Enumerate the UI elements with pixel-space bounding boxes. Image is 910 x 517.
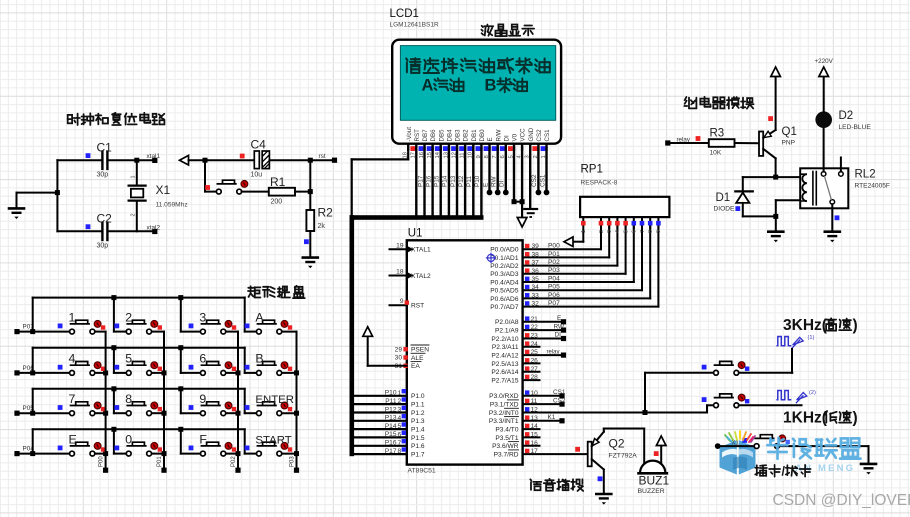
wire row bus [32,389,34,413]
wire button to column [152,372,165,374]
svg-text:CS2: CS2 [536,129,543,142]
power EA [363,327,373,337]
node E [561,319,566,324]
junction [512,199,517,204]
wire column P03 [296,332,298,471]
wire [17,453,70,455]
wire [604,428,644,430]
pin 5 RP1 [625,217,627,228]
lcd pin VCC [521,144,523,150]
svg-text:Q2: Q2 [609,437,625,451]
wire bus drop [180,429,182,453]
svg-text:P3.1/TXD: P3.1/TXD [490,402,519,409]
wire P00 [523,248,601,250]
pin 4 RP1 [616,217,618,228]
svg-text:30p: 30p [97,243,109,250]
svg-text:C1: C1 [97,141,113,155]
svg-text:C2: C2 [97,212,113,226]
wire button to column [152,453,165,455]
svg-text:P14: P14 [442,175,449,187]
pin 7 RP1 [641,217,643,228]
node CS1 [559,393,564,398]
svg-text:2k: 2k [318,223,326,230]
svg-text:START: START [255,434,291,446]
svg-text:P03: P03 [548,267,560,274]
wire button to column [152,412,165,414]
label 语音播报 [530,479,541,490]
svg-text:P3.3/INT1: P3.3/INT1 [489,418,519,425]
svg-text:ENTER: ENTER [255,394,294,406]
svg-text:BUZ1: BUZ1 [639,474,670,488]
watermark logo fan [725,431,755,442]
svg-text:AT89C51: AT89C51 [408,468,436,475]
wire DI [505,148,507,192]
wire row bus [33,297,245,299]
svg-text:P10: P10 [385,390,397,397]
label 插卡/拔卡 [755,465,767,476]
relay RL2 [800,158,848,209]
svg-text:P1.2: P1.2 [411,410,425,417]
junction [236,411,241,416]
pin 2 P1.1 [354,403,407,405]
wire bus drop [113,389,115,413]
svg-text:P02: P02 [548,259,560,266]
label keypad title [248,286,260,297]
svg-text:4: 4 [398,415,402,422]
wire VCC [521,148,523,202]
svg-text:P0.5/AD5: P0.5/AD5 [490,288,519,295]
svg-text:6: 6 [199,352,206,366]
wire P03 [523,273,626,275]
svg-text:P17: P17 [417,175,424,187]
svg-text:3: 3 [398,407,402,414]
wire Q2 collector [603,470,605,494]
svg-text:P13: P13 [385,415,397,422]
push button 7 [58,402,106,416]
wire [514,201,522,203]
svg-text:X1: X1 [156,183,171,197]
wire [367,336,369,366]
wire bus drop [113,298,115,332]
junction [30,329,35,334]
wire GND [529,148,531,209]
svg-text:RESPACK-8: RESPACK-8 [581,180,618,187]
wire [245,412,257,414]
svg-text:DB2: DB2 [463,129,470,142]
svg-text:xtal1: xtal1 [147,153,161,160]
svg-text:R3: R3 [710,128,725,140]
junction [773,175,778,180]
lcd text line1 请选择汽油或柴油 [406,58,420,73]
svg-text:ALE: ALE [411,355,424,362]
node CS2 [559,402,564,407]
svg-text:DI: DI [499,180,506,187]
wire [351,159,353,216]
push button 5 [114,362,162,376]
wire [573,241,584,243]
wire [775,216,777,231]
wire [57,159,100,161]
junction [308,189,313,194]
svg-text:P3.6/WR: P3.6/WR [492,443,519,450]
node K1 button [715,443,721,449]
wire [521,202,523,218]
svg-text:P1.7: P1.7 [411,452,425,459]
svg-text:P3.5/T1: P3.5/T1 [495,435,518,442]
wire DI [523,338,564,340]
ground LCD GND [523,209,538,217]
wire [739,404,802,406]
svg-text:P2.6/A14: P2.6/A14 [491,369,518,376]
svg-text:C4: C4 [251,138,267,152]
buzzer BUZ1 [639,461,667,474]
svg-text:1: 1 [131,175,137,178]
resistor R2 [306,210,314,231]
pin 1 RP1 [582,217,584,242]
svg-text:1: 1 [581,230,587,233]
svg-text:P04: P04 [548,275,560,282]
lcd pin E [488,144,490,150]
node DI [503,190,509,196]
wire stub [523,346,540,348]
svg-text:+220V: +220V [815,58,834,65]
wire [608,226,610,257]
clock source 2 [776,391,806,404]
push button START [245,442,293,456]
svg-text:P1.6: P1.6 [411,443,425,450]
transistor Q2 [588,432,604,470]
wire LCD data [472,148,474,217]
svg-text:CS1: CS1 [553,389,566,396]
pin 2 RP1 [600,217,602,228]
svg-text:K1: K1 [548,414,556,421]
node CS1 [544,190,550,196]
svg-text:rst: rst [319,153,326,160]
wire button to column [226,412,238,414]
wire row bus [33,388,245,390]
svg-text:2: 2 [125,310,132,324]
pin 3 RP1 [608,217,610,228]
node P04 [14,451,19,456]
wire button to column [95,453,106,455]
svg-text:0: 0 [125,432,132,446]
label 液晶显示 [481,25,493,36]
svg-text:RST: RST [414,129,421,142]
wire RW [497,148,499,192]
wire LCD data [440,148,442,217]
wire button to column [282,453,297,455]
svg-text:E: E [482,183,489,187]
ic U1 AT89C51 body [407,240,523,464]
svg-text:5: 5 [623,230,629,233]
wire LCD data [480,148,482,217]
svg-text:P1.0: P1.0 [411,393,425,400]
svg-text:P2.2/A10: P2.2/A10 [491,336,518,343]
junction [103,451,108,456]
wire column P00 [105,332,107,471]
wire LCD data [464,148,466,217]
svg-text:EA: EA [411,363,420,370]
wire [181,331,201,333]
node E [487,190,493,196]
pin 1 P1.0 [354,395,407,397]
wire [641,226,643,290]
wire button to column [95,331,106,333]
node P00 [103,468,108,473]
wire K1 [523,420,562,422]
wire P06 [523,297,651,299]
svg-text:R1: R1 [270,175,286,189]
svg-text:9: 9 [400,298,404,305]
svg-text:3KHz(: 3KHz( [783,317,828,334]
svg-text:BUZZER: BUZZER [638,488,665,495]
svg-text:P0.6/AD6: P0.6/AD6 [490,296,519,303]
junction [308,158,313,163]
wire row bus [33,428,245,430]
junction [162,370,167,375]
node RW [495,190,501,196]
push button 3KHz [702,361,750,375]
svg-text:P1.3: P1.3 [411,418,425,425]
pin 9 RP1 [657,217,659,228]
lcd pin DB2 [464,144,466,150]
wire [245,453,257,455]
lcd LCD1 body [392,40,561,144]
svg-text:9: 9 [199,392,206,406]
svg-text:5: 5 [398,423,402,430]
wire [17,192,58,194]
junction [178,345,183,350]
wire [181,372,201,374]
node RW [561,328,566,333]
svg-text:R2: R2 [318,206,334,220]
svg-text:xtal2: xtal2 [147,224,161,231]
svg-text:RW: RW [554,323,565,330]
wire [204,160,206,191]
svg-text:GND: GND [528,127,535,141]
led D2 [815,111,832,128]
svg-text:P07: P07 [548,300,560,307]
svg-text:P16: P16 [425,175,432,187]
svg-text:DB5: DB5 [438,129,445,142]
svg-text:11.059Mhz: 11.059Mhz [156,202,188,209]
node relay [665,140,670,145]
svg-text:VCC: VCC [520,128,527,142]
junction [520,199,525,204]
svg-text:F: F [199,432,207,446]
wire CS2 [523,403,562,405]
junction [111,295,116,300]
wire [245,331,257,333]
power Q1 [771,67,781,77]
wire INT0 to speed buttons [523,412,707,414]
wire [791,349,793,373]
push button E [58,442,106,456]
wire stub [523,371,540,373]
wire bus drop [113,348,115,373]
svg-text:R/W: R/W [495,129,502,141]
svg-text:-Vout: -Vout [406,127,413,142]
svg-text:FZT792A: FZT792A [609,453,638,460]
svg-text:PSEN: PSEN [411,347,429,354]
wire button to column [152,331,165,333]
svg-text:6: 6 [398,431,402,438]
wire CS2 [537,148,539,192]
node relay [561,353,566,358]
push button A [245,320,293,334]
wire -Vout [407,148,409,159]
svg-text:P10: P10 [474,175,481,187]
wire row bus [33,347,245,349]
junction [294,451,299,456]
svg-text:(2): (2) [809,390,816,396]
wire bus drop [244,348,246,373]
wire bus drop [180,298,182,332]
svg-text:P14: P14 [385,423,397,430]
push button reset [216,180,247,194]
junction [103,370,108,375]
wire button to column [226,453,238,455]
junction [111,386,116,391]
capacitor C4 [254,151,269,169]
lcd pin GND [529,144,531,150]
svg-text:9: 9 [656,230,662,233]
push button 1 [58,320,106,334]
pin 5 P1.4 [354,428,407,430]
junction [103,411,108,416]
svg-text:4: 4 [69,352,76,366]
wire [743,176,800,178]
svg-text:P16: P16 [385,440,397,447]
wire [242,191,269,193]
wire [643,429,645,465]
svg-text:P1.1: P1.1 [411,402,425,409]
svg-text:30: 30 [395,355,403,362]
wire E [488,148,490,192]
lcd pin DI [505,144,507,150]
wire [775,200,777,216]
svg-text:relay: relay [547,349,560,355]
junction [162,451,167,456]
wire [625,226,627,274]
svg-text:2: 2 [599,230,605,233]
wire RD to Q2 [523,453,588,455]
junction [643,410,648,415]
wire [718,445,754,447]
svg-text:DB1: DB1 [471,129,478,142]
push button 8 [114,402,162,416]
node P02 [235,468,240,473]
wire button to column [226,331,238,333]
node P07 [14,329,19,334]
lcd pin R/W [497,144,499,150]
svg-text:U1: U1 [408,228,423,240]
wire [189,159,255,161]
svg-text:): ) [853,317,858,334]
wire LCD data [415,148,417,217]
junction [30,411,35,416]
wire column P01 [163,332,165,471]
transistor Q1 [759,130,776,158]
diode D1 [735,177,753,216]
junction [773,214,778,219]
crosshair marker [486,253,496,263]
svg-text:1KHz(: 1KHz( [783,410,828,427]
node xtal1 [152,158,157,163]
wire P07 [523,306,659,308]
wire button to column [282,331,297,333]
push button 2 [114,320,162,334]
wire [109,230,152,232]
svg-text:8: 8 [398,448,402,455]
ground LCD [517,218,527,228]
pin 7 P1.6 [354,445,407,447]
lcd pin DB1 [472,144,474,150]
pin 8 P1.7 [354,453,407,455]
crystal X1 [129,160,146,231]
wire [17,372,70,374]
wire bus drop [244,429,246,453]
ground Q2 [595,494,613,505]
wire relay common [831,204,833,231]
svg-text:P11: P11 [466,176,473,187]
svg-text:E: E [69,432,77,446]
wire [668,142,709,144]
pin 8 RP1 [649,217,651,228]
clock source 1 [776,337,803,349]
junction [294,411,299,416]
svg-text:4: 4 [615,230,621,233]
svg-text:P0.2/AD2: P0.2/AD2 [490,263,519,270]
wire [16,193,18,208]
wire P05 [523,289,642,291]
power +220V [819,67,829,77]
pin 18 XTAL2 [390,275,407,277]
wire RW [523,329,564,331]
push button 4 [58,362,106,376]
wire [17,412,70,414]
wire [600,226,602,249]
wire button to column [226,372,238,374]
push button ENTER [245,402,293,416]
resistor R1 lead [205,191,216,193]
junction [134,158,139,163]
wire bus drop [244,298,246,332]
wire [739,372,793,374]
ground K1 [860,464,878,475]
ground [8,208,26,219]
svg-text:19: 19 [396,242,404,249]
svg-text:DB0: DB0 [479,129,486,142]
svg-text:P01: P01 [548,251,560,258]
wire stub [523,445,540,447]
svg-text:P15: P15 [385,431,397,438]
lcd pin -Vout [407,144,409,150]
wire [644,373,646,413]
wire relay [523,354,564,356]
push button B [245,362,293,376]
lcd pin DB5 [440,144,442,150]
node xtal2 [152,229,157,234]
lcd pin DB4 [448,144,450,150]
svg-text:200: 200 [271,199,283,206]
svg-text:B: B [255,352,263,366]
svg-text:(1): (1) [808,335,815,341]
svg-text:P2.5/A13: P2.5/A13 [491,361,518,368]
power RP1 [564,237,573,247]
node P03 [294,468,299,473]
wire V0 [513,148,515,202]
